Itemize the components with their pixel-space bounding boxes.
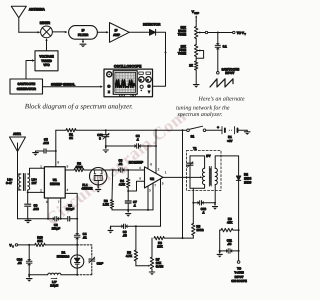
- svg-text:AMP: AMP: [113, 33, 121, 37]
- Y-axis output terminal: [231, 230, 247, 283]
- node Vt/C14: [28, 244, 30, 246]
- sawtooth generator box: [10, 79, 43, 94]
- caption: alternate tuning network: [176, 96, 245, 119]
- T1 core with slug arrow: [209, 167, 211, 187]
- U1 pin labels: [40, 161, 68, 204]
- capacitor C11 .05: [220, 238, 240, 253]
- resistor R6 4.7K: [126, 226, 138, 265]
- svg-text:.1: .1: [133, 204, 136, 208]
- wire R4/C7 node to U2 pin6: [128, 181, 144, 191]
- ground line y210 (R3 to U2 pins 3,7): [112, 209, 153, 211]
- V+ rail: [56, 129, 188, 131]
- capacitor C4 .01: [74, 219, 87, 246]
- resistor R8 28K: [154, 236, 193, 248]
- capacitor C7 .1: [125, 191, 137, 210]
- sweep signal wire to scope X: [43, 83, 103, 88]
- ground below C14 node: [26, 275, 32, 282]
- capacitor C8 .1: [135, 134, 141, 148]
- signal wire U1 pin5 to FL1: [65, 169, 74, 171]
- scope right controls: [139, 72, 144, 74]
- ground below R7: [149, 271, 154, 273]
- U2 pin2 riser: [155, 130, 157, 173]
- V+ riser to R8 line: [182, 130, 184, 238]
- wiper wire R6 to R7: [136, 265, 151, 267]
- svg-text:SAWTOOTH: SAWTOOTH: [18, 82, 36, 86]
- svg-text:4.7K: 4.7K: [126, 254, 133, 258]
- svg-text:SWEEP SIGNAL: SWEEP SIGNAL: [51, 83, 75, 87]
- svg-text:455KHZ: 455KHZ: [82, 187, 93, 191]
- U2 pin3 drop: [147, 186, 149, 210]
- svg-text:.068: .068: [33, 207, 39, 211]
- ground for battery: [244, 130, 250, 135]
- capacitor C10 .1: [198, 201, 207, 215]
- svg-text:100pF: 100pF: [52, 226, 61, 230]
- switch S1: [187, 126, 206, 138]
- antenna (block diagram): [11, 6, 45, 32]
- IF filter block: [69, 26, 98, 40]
- U2 pin labels: [139, 163, 167, 193]
- svg-text:C13*: C13*: [97, 261, 104, 265]
- svg-text:.1: .1: [136, 138, 139, 142]
- trimmer cap inside T1: [187, 156, 193, 188]
- ceramic filter FL1 455KHZ: [82, 168, 107, 191]
- capacitor C2 100pF (series in rail): [52, 217, 61, 231]
- svg-text:2.5µH: 2.5µH: [50, 284, 59, 288]
- scope bottom knobs: [119, 94, 121, 96]
- resistor R3 1.5K: [103, 170, 114, 210]
- svg-text:GAIN: GAIN: [156, 264, 164, 268]
- svg-text:.05: .05: [227, 242, 231, 246]
- U1 pin8 riser: [55, 130, 57, 167]
- ground for C5: [33, 152, 39, 154]
- ground left end of C9 line: [108, 226, 113, 233]
- scope knob top-left: [107, 72, 112, 77]
- svg-text:S1: S1: [191, 134, 195, 138]
- svg-text:IFT: IFT: [206, 154, 211, 158]
- svg-text:4.7K: 4.7K: [119, 182, 126, 186]
- mixer: [40, 21, 53, 38]
- battery B1 9V: [206, 125, 247, 142]
- Vt terminal: [9, 243, 29, 248]
- node L3 bottom / C3: [27, 191, 29, 193]
- wire mixer to IF filter: [52, 31, 67, 33]
- wiper terminal circle: [205, 31, 207, 33]
- svg-text:.05: .05: [17, 261, 21, 265]
- sawtooth waveform symbol: [210, 79, 233, 87]
- node D1 bottom: [76, 274, 78, 276]
- svg-text:+: +: [217, 125, 219, 129]
- U2 output wire to T1 tap: [163, 176, 202, 178]
- svg-text:GENERATOR: GENERATOR: [17, 87, 37, 91]
- resistor R9 47K: [220, 217, 240, 232]
- capacitor C3 .068: [25, 192, 39, 218]
- svg-text:REF: REF: [194, 12, 199, 15]
- T1 secondary winding: [215, 156, 238, 203]
- resistor R4 4.7K: [119, 170, 130, 192]
- svg-text:.01: .01: [118, 162, 122, 166]
- svg-text:tuning network for the: tuning network for the: [176, 105, 230, 112]
- inductor L1 2.5uH: [29, 273, 77, 287]
- scope waveform trace: [115, 80, 135, 88]
- svg-text:28K: 28K: [157, 244, 163, 248]
- C4 riser from U1 pin4: [65, 193, 78, 219]
- svg-text:3-4T: 3-4T: [6, 181, 12, 185]
- wire sawtooth gen to VFO: [26, 59, 35, 79]
- IF amp: [110, 23, 130, 43]
- svg-text:1N60: 1N60: [244, 180, 252, 184]
- U2 pin7 drop: [152, 183, 154, 210]
- capacitor C14 .05: [17, 245, 32, 275]
- capacitor 0.1 (series in sawtooth feed): [215, 33, 227, 72]
- svg-text:IF: IF: [82, 29, 85, 33]
- svg-text:U2: U2: [150, 177, 154, 181]
- ground below IF filter: [80, 39, 86, 47]
- potentiometer R main tune 56K: [178, 21, 206, 39]
- optional capacitor C13* (dashed): [77, 245, 92, 275]
- svg-text:TUNE: TUNE: [178, 52, 186, 56]
- svg-text:MC1350P: MC1350P: [129, 160, 144, 164]
- capacitor C9 .05: [121, 224, 127, 238]
- VFO arrow to mixer: [45, 38, 47, 51]
- svg-text:spectrum analyzer.: spectrum analyzer.: [177, 111, 222, 118]
- transformer core: [24, 174, 26, 191]
- svg-text:100Ω: 100Ω: [196, 228, 204, 232]
- U2 pin8 riser: [147, 146, 149, 169]
- T1 primary drop to C10/R5: [192, 188, 194, 203]
- svg-text:T1: T1: [193, 146, 197, 150]
- svg-text:NTE8814: NTE8814: [57, 255, 70, 259]
- svg-text:.1: .1: [202, 211, 205, 215]
- svg-text:0.1: 0.1: [223, 45, 227, 49]
- inductor L3 18T: [28, 168, 45, 192]
- capacitor C1 100uF (series in rail): [66, 203, 75, 221]
- IC U1 NE602: [44, 167, 65, 198]
- scope X input: [107, 85, 111, 89]
- svg-text:.01: .01: [83, 236, 87, 240]
- ground below C7 node: [126, 210, 131, 217]
- inductor L2 3-4T: [6, 174, 21, 190]
- scope Y input: [147, 84, 151, 88]
- ground below FL1: [96, 187, 101, 193]
- transformer T1 dashed box: [187, 146, 222, 190]
- ground below 1K: [193, 85, 199, 88]
- op-amp style U2 MC1350P: [129, 160, 163, 188]
- svg-text:NE602: NE602: [50, 182, 60, 186]
- C9 line (pin5 AGC line): [111, 225, 161, 227]
- ground right of C10: [212, 203, 217, 210]
- capacitor C5 .068: [36, 138, 56, 153]
- antenna ANT1: [10, 132, 26, 152]
- diode D2 1N34/1N60: [236, 156, 251, 230]
- oscilloscope: [104, 64, 153, 96]
- svg-text:INPUT: INPUT: [225, 71, 234, 75]
- potentiometer R7 10K GAIN: [150, 238, 164, 272]
- resistor R2 470ohm: [74, 162, 91, 172]
- wire filter to IF amp: [97, 31, 108, 33]
- svg-text:TUNE: TUNE: [178, 33, 186, 37]
- ground rail (bottom) with ground symbol: [18, 218, 78, 220]
- svg-text:47K: 47K: [227, 221, 233, 225]
- detector diode: [143, 23, 161, 36]
- wire detector to scope Y: [153, 32, 167, 86]
- svg-text:MIXER: MIXER: [40, 21, 51, 25]
- TO Vt terminal: [233, 31, 247, 36]
- R9 left stub down to ground: [219, 230, 221, 252]
- C8 line (C12 node to U2 pins 8/2): [106, 145, 157, 147]
- node below C12 + ground: [103, 145, 108, 153]
- wire C6 to U2 pin4: [124, 169, 145, 171]
- resistor R10 20K: [29, 236, 77, 247]
- svg-text:.068: .068: [43, 141, 49, 145]
- svg-text:ANTENNA: ANTENNA: [29, 7, 46, 11]
- wire FL1 to node A: [105, 169, 118, 171]
- svg-text:DETECTOR: DETECTOR: [143, 23, 161, 27]
- svg-text:18T: 18T: [32, 181, 37, 185]
- svg-text:100µF: 100µF: [66, 207, 75, 211]
- svg-text:ANT1: ANT1: [13, 132, 21, 136]
- resistor R1 1K (series in rail): [66, 129, 76, 141]
- svg-text:OSCILLOSCOPE: OSCILLOSCOPE: [114, 64, 142, 68]
- U2 pin5 drop: [160, 179, 162, 227]
- svg-text:FILTER: FILTER: [78, 33, 89, 37]
- voltage tuned VFO box: [35, 51, 58, 71]
- Vref supply terminal: [192, 10, 200, 21]
- ground symbol on rail: [25, 219, 31, 224]
- capacitor C6 .01: [118, 158, 124, 172]
- svg-text:ON SCOPE: ON SCOPE: [231, 279, 247, 283]
- sawtooth input terminal: [217, 67, 240, 75]
- svg-text:U1: U1: [53, 178, 57, 182]
- svg-text:Block diagram of a spectrum an: Block diagram of a spectrum analyzer.: [25, 102, 133, 110]
- wire amp to detector: [129, 31, 149, 33]
- svg-text:470Ω: 470Ω: [75, 165, 83, 169]
- scope screen: [113, 71, 137, 95]
- node C14 bottom / L1: [28, 274, 30, 276]
- svg-text:.05: .05: [123, 234, 127, 238]
- svg-text:1.5K: 1.5K: [103, 202, 110, 206]
- varactor diode D1 NTE8814: [57, 245, 84, 275]
- C10 line: [192, 202, 216, 204]
- wire antenna to mixer: [19, 31, 40, 33]
- U1 pin7 wire: [60, 198, 62, 220]
- ground below stub: [217, 251, 222, 258]
- svg-text:20K: 20K: [37, 239, 43, 243]
- resistor 1K: [189, 57, 198, 85]
- potentiometer R fine tune 10K: [178, 39, 204, 59]
- svg-text:Here’s an alternate: Here’s an alternate: [198, 96, 245, 103]
- svg-text:VFO: VFO: [43, 63, 50, 67]
- resistor R5 100ohm: [192, 203, 205, 238]
- trimmer capacitor C12 3: [97, 130, 109, 146]
- wire ANT1 down to ground rail: [17, 152, 19, 219]
- wire wiper to TO Vt: [208, 32, 233, 34]
- U1 pin3 wire: [47, 198, 49, 220]
- T1 primary winding: [190, 156, 205, 188]
